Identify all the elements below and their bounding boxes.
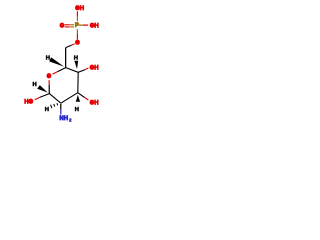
svg-text:H: H	[45, 107, 49, 113]
wedge bond C3-H	[76, 95, 80, 102]
wedge bond C4-H	[74, 61, 78, 69]
bond P-O(ester)	[76, 29, 78, 34]
hole fill ring O	[48, 74, 51, 77]
hole fill OH right	[91, 24, 94, 27]
bond C5-O(ring)	[57, 68, 65, 72]
svg-text:OH: OH	[90, 66, 99, 72]
bond P-O(right)	[79, 24, 83, 26]
wedge bond C5-H	[49, 57, 64, 67]
hole fill OH C4	[91, 66, 94, 69]
hole fill OH top	[76, 7, 79, 10]
hash wedge bond C2-H	[56, 103, 59, 105]
wedge bond C1-H	[37, 85, 48, 93]
bond C4-C3	[77, 72, 79, 92]
hole fill =O	[61, 24, 64, 27]
svg-text:OH: OH	[90, 24, 99, 30]
svg-text:H: H	[46, 56, 50, 62]
svg-text:H: H	[33, 82, 37, 88]
hole fill ester O	[76, 41, 79, 44]
bond C5-C4	[66, 68, 79, 73]
bond C1-O	[40, 94, 49, 98]
bond C3-C2	[61, 93, 78, 104]
svg-text:NH: NH	[59, 116, 68, 122]
svg-text:H: H	[75, 107, 79, 113]
bond O(ester)-C6	[72, 44, 75, 45]
hole fill OH C3	[91, 101, 94, 104]
svg-text:HO: HO	[24, 100, 33, 106]
bond C4-O	[78, 70, 85, 73]
svg-text:2: 2	[69, 117, 72, 122]
hole fill P	[77, 23, 79, 25]
bond C2-N	[60, 104, 62, 110]
svg-text:OH: OH	[75, 6, 84, 12]
hole fill HO	[30, 100, 33, 103]
svg-text:H: H	[74, 56, 78, 62]
molecular structure: glucosamine 6-phosphate	[0, 0, 130, 130]
bond O(top)-P	[76, 11, 78, 16]
double bond P=O	[65, 24, 70, 26]
svg-text:OH: OH	[90, 101, 99, 107]
bond C3-O	[78, 93, 85, 98]
bond O(ring)-C1	[48, 80, 50, 85]
bond C2-C1	[49, 94, 60, 104]
bond C6-C5	[65, 48, 67, 68]
